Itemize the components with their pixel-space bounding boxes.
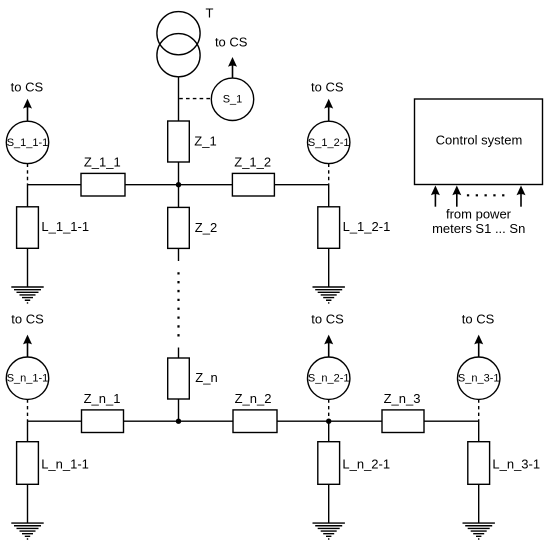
svg-text:S_n_2-1: S_n_2-1 <box>308 373 350 385</box>
load L_n_2-1 <box>318 442 390 485</box>
svg-text:to CS: to CS <box>11 312 44 327</box>
power meter S_n_2-1 <box>308 357 350 399</box>
label T <box>206 5 214 20</box>
wire bottom bus segment 4 <box>424 420 479 422</box>
wire bus to load L_1_2-1 <box>328 185 330 207</box>
svg-text:Z_2: Z_2 <box>195 220 217 235</box>
impedance Z_n_1 <box>82 391 124 433</box>
arrow S_n_1-1 to control system <box>23 335 32 357</box>
svg-text:S_1_2-1: S_1_2-1 <box>308 137 350 149</box>
node bottom bus junction at S_n_2-1 <box>326 419 331 424</box>
svg-text:Z_n_2: Z_n_2 <box>235 391 272 406</box>
wire dashed S_1_2-1 to bus <box>328 164 330 185</box>
wire bus to load L_n_3-1 <box>478 421 480 442</box>
svg-text:Z_1_1: Z_1_1 <box>84 155 121 170</box>
wire bus to load L_1_1-1 <box>27 185 29 207</box>
svg-text:Z_n_3: Z_n_3 <box>384 391 421 406</box>
wire transformer secondary to Z_1 <box>178 77 180 121</box>
svg-text:L_n_1-1: L_n_1-1 <box>41 456 89 471</box>
ground (L_n_2-1) <box>313 523 345 539</box>
node bottom bus junction at Z_n <box>176 419 181 424</box>
ground (L_n_3-1) <box>463 523 495 539</box>
impedance Z_n_3 <box>382 391 424 433</box>
wire top bus right segment <box>274 184 328 186</box>
dots more inputs <box>468 194 504 196</box>
arrow input 1 to control system <box>431 186 440 207</box>
svg-text:to CS: to CS <box>311 80 344 95</box>
wire bus to load L_n_1-1 <box>27 421 29 442</box>
impedance Z_1_2 <box>232 155 274 197</box>
arrow S_1 to control system <box>228 57 237 78</box>
svg-text:from power: from power <box>446 207 512 222</box>
ground (L_1_1-1) <box>11 287 43 303</box>
wire L_n_2-1 to ground <box>328 484 330 523</box>
wire top bus middle segment <box>125 184 232 186</box>
label to CS (S_n_2-1) <box>311 312 344 327</box>
power meter S_n_1-1 <box>6 357 48 399</box>
svg-text:to CS: to CS <box>11 80 44 95</box>
impedance Z_n <box>168 358 218 399</box>
label to CS (S_n_3-1) <box>462 312 495 327</box>
ground (L_n_1-1) <box>11 523 43 539</box>
power meter S_1_2-1 <box>308 121 350 163</box>
load L_1_1-1 <box>17 207 90 249</box>
impedance Z_2 <box>168 207 218 248</box>
svg-text:S_1_1-1: S_1_1-1 <box>7 137 49 149</box>
wire bottom bus segment 2 <box>124 420 234 422</box>
svg-text:Z_n: Z_n <box>195 370 217 385</box>
wire L_n_1-1 to ground <box>27 484 29 523</box>
label to CS (S_n_1-1) <box>11 312 44 327</box>
power meter S_n_3-1 <box>458 357 500 399</box>
label from power meters S1 ... Sn <box>432 207 525 237</box>
arrow S_1_2-1 to control system <box>324 99 333 121</box>
label to CS (S_1) <box>215 34 248 49</box>
power meter S_1 <box>211 78 253 120</box>
svg-text:L_n_2-1: L_n_2-1 <box>342 456 390 471</box>
wire bottom bus segment 3 <box>277 420 382 422</box>
load L_n_3-1 <box>468 442 540 485</box>
svg-text:L_1_2-1: L_1_2-1 <box>343 219 391 234</box>
impedance Z_1 <box>168 121 217 162</box>
wire dashed S_1_1-1 to bus <box>27 164 29 185</box>
wire dashed measurement tap to S_1 <box>179 98 211 100</box>
wire top bus left segment <box>28 184 82 186</box>
ground (L_1_2-1) <box>313 287 345 303</box>
svg-text:Z_1: Z_1 <box>194 134 216 149</box>
control system box U1 <box>415 99 543 185</box>
svg-text:L_1_1-1: L_1_1-1 <box>41 219 89 234</box>
wire bottom bus segment 1 <box>28 420 82 422</box>
power meter S_1_1-1 <box>6 121 48 163</box>
svg-text:S_1: S_1 <box>223 94 243 106</box>
svg-text:T: T <box>206 5 214 20</box>
svg-text:S_n_1-1: S_n_1-1 <box>7 373 49 385</box>
label to CS (S_1_2-1) <box>311 80 344 95</box>
svg-text:to CS: to CS <box>462 312 495 327</box>
arrow S_n_3-1 to control system <box>474 335 483 357</box>
impedance Z_n_2 <box>233 391 277 433</box>
wire dotted continuation Z_2 to Z_n <box>177 273 179 336</box>
wire bus to load L_n_2-1 <box>328 421 330 442</box>
arrow input 2 to control system <box>452 186 461 207</box>
svg-text:Z_n_1: Z_n_1 <box>84 391 121 406</box>
arrow S_1_1-1 to control system <box>23 99 32 121</box>
node top bus junction <box>176 182 181 187</box>
transformer T <box>157 12 200 77</box>
svg-text:L_n_3-1: L_n_3-1 <box>492 456 540 471</box>
wire Z_1 to top bus junction <box>178 162 180 185</box>
wire above Z_n <box>178 348 180 359</box>
label to CS (S_1_1-1) <box>11 80 44 95</box>
load L_n_1-1 <box>17 442 89 485</box>
wire dashed S_n_3-1 to bus <box>478 399 480 421</box>
svg-text:Control system: Control system <box>436 132 523 147</box>
wire dashed S_n_2-1 to bus <box>328 399 330 421</box>
svg-text:to CS: to CS <box>311 312 344 327</box>
wire L_n_3-1 to ground <box>478 484 480 523</box>
impedance Z_1_1 <box>81 155 125 197</box>
wire L_1_1-1 to ground <box>27 248 29 287</box>
arrow input n to control system <box>517 186 526 207</box>
svg-text:to CS: to CS <box>215 34 248 49</box>
wire bus to Z_2 <box>178 185 180 208</box>
svg-text:meters S1 ... Sn: meters S1 ... Sn <box>432 221 525 236</box>
svg-text:S_n_3-1: S_n_3-1 <box>458 373 500 385</box>
arrow S_n_2-1 to control system <box>324 335 333 357</box>
wire Z_n to bottom bus junction <box>178 399 180 421</box>
svg-text:Z_1_2: Z_1_2 <box>234 155 271 170</box>
wire below Z_2 <box>178 248 180 261</box>
wire L_1_2-1 to ground <box>328 248 330 287</box>
load L_1_2-1 <box>318 207 391 249</box>
wire dashed S_n_1-1 to bus <box>27 399 29 421</box>
